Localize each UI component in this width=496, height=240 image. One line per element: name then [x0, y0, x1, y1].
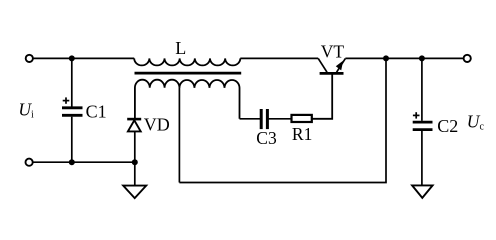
- VT collector slant: [318, 58, 327, 72]
- transistor VT: [318, 58, 345, 73]
- C1 polarity plus: [63, 97, 70, 103]
- input terminal bottom: [26, 159, 33, 166]
- VT emitter arrow: [336, 61, 343, 71]
- wire top rail right: [345, 57, 463, 59]
- wire VD lower lead: [134, 132, 136, 186]
- diode VD: [127, 119, 141, 131]
- wire C3 to R1: [269, 118, 291, 120]
- inductor L secondary winding left section: [135, 80, 180, 119]
- wire feedback loop: [179, 58, 386, 182]
- wire C2 lower lead: [421, 131, 423, 185]
- ground symbol right: [412, 185, 433, 198]
- output terminal: [464, 55, 471, 62]
- svg-text:L: L: [175, 38, 186, 58]
- capacitor C2: [413, 122, 433, 130]
- C2 polarity plus: [413, 112, 420, 118]
- svg-text:R1: R1: [292, 124, 312, 144]
- ground symbol left: [123, 186, 146, 199]
- input terminal top: [26, 55, 33, 62]
- svg-text:C2: C2: [437, 116, 458, 136]
- wire C2 upper lead: [421, 58, 423, 120]
- svg-text:C1: C1: [86, 102, 107, 122]
- node junction feedback: [383, 55, 389, 61]
- wire C1 upper lead: [71, 58, 73, 106]
- node junction C1 top: [69, 55, 75, 61]
- inductor L secondary winding right section: [179, 80, 239, 119]
- svg-text:C3: C3: [256, 128, 277, 148]
- node junction VD ground: [132, 159, 138, 165]
- node junction C1 bottom: [69, 159, 75, 165]
- wire C1 lower lead: [71, 117, 73, 163]
- svg-text:VD: VD: [144, 115, 170, 135]
- wire center tap down: [178, 88, 180, 183]
- resistor R1: [292, 115, 312, 122]
- wire top rail middle: [240, 57, 318, 59]
- svg-text:VT: VT: [321, 41, 345, 61]
- capacitor C1: [62, 108, 83, 116]
- wire bottom rail: [33, 161, 135, 163]
- capacitor C3: [261, 109, 267, 129]
- VT emitter slant: [337, 58, 346, 72]
- VT base bar: [320, 72, 344, 75]
- inductor L primary winding: [134, 58, 240, 65]
- wire R1 to base: [313, 74, 333, 119]
- wire secondary right end down: [240, 118, 261, 120]
- wire top rail left: [34, 57, 135, 59]
- inductor L core bar: [135, 72, 242, 75]
- node junction C2 top: [419, 55, 425, 61]
